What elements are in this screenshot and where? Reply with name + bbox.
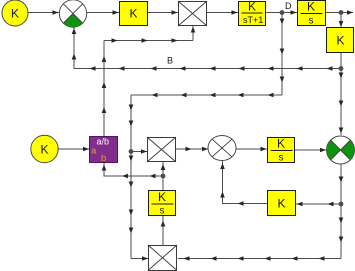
svg-text:K: K [11,7,19,21]
gain K3 block right [327,28,354,53]
wire: gain K2 to multiplier X1 [148,10,178,15]
svg-text:b: b [101,153,106,164]
wire: junction left then up into divider b input [102,163,163,178]
transfer function G1 K/(sT+1) [239,0,266,26]
integrator I2 K/s [268,137,295,164]
wire: vertical x131 down to junction [129,95,134,154]
wire: vertical x131 lower section down [129,152,134,259]
wire: junction left into gain K5 right [296,202,341,207]
wire: multiplier X1 to transfer function G1 [207,10,238,15]
gain K2 block [120,2,148,26]
svg-text:a/b: a/b [97,137,110,147]
multiplier X3 block bottom [148,245,177,271]
svg-text:s: s [279,153,284,164]
wire: gain K3 bottom down to summer S2 top, node B junction [339,53,344,135]
svg-text:s: s [160,206,165,217]
gain K5 block [268,191,296,216]
wire: multiplier M1 to integrator I2 [236,147,267,152]
svg-text:K: K [337,34,345,48]
wire: up into multiplier X1 bottom [191,26,196,41]
wire: divider output up from top [102,41,107,137]
svg-text:D: D [285,1,292,11]
svg-text:K: K [278,197,286,211]
wire: bottom feedback leftwards into multiplier X3 right [178,256,341,261]
divider a/b block [90,137,118,165]
source K1 circle [2,0,28,26]
wire: junction down into gain K3 top [339,13,344,28]
wire: source K1 to summer S1 [28,10,59,15]
wire: summer S1 to gain K2 [87,10,119,15]
source K4 circle [31,135,58,162]
summer S2 (left and right green wedges) [326,136,354,164]
wire: summer S2 output down, junction [339,164,344,259]
svg-text:B: B [167,56,173,66]
wire: feedback line B right to left [74,66,341,71]
svg-text:K: K [248,0,256,14]
svg-text:K: K [41,143,49,157]
wire: node D down [280,13,285,96]
svg-text:sT+1: sT+1 [243,15,263,25]
svg-text:s: s [309,16,314,27]
svg-text:K: K [158,190,166,204]
wire: into multiplier X3 left [131,256,148,261]
wire: source K4 to divider a input [58,147,89,152]
wire: node D horizontal leftwards at y95 [131,93,282,98]
svg-text:K: K [277,137,285,151]
multiplier M1 circle [208,136,236,161]
wire: multiplier X2 to multiplier M1 circle [176,147,208,152]
svg-text:a: a [91,146,97,157]
summer S1 (minus bottom wedge) [59,0,86,27]
wire: integrator I1 output to right edge [326,10,353,15]
multiplier X2 block [147,137,176,162]
wire: multiplier X3 output up into integrator I3 bottom [161,216,166,245]
wire: integrator I2 to summer S2 left [295,148,326,153]
wire: horizontal y40 rightwards [104,38,193,43]
wire: junction into multiplier X2 left [131,149,147,154]
wire: integrator I3 top up into multiplier X2 bottom, junction [161,162,166,190]
svg-text:K: K [307,0,315,14]
wire: gain K5 left, up into multiplier M1 bottom [220,161,267,206]
svg-text:K: K [130,7,138,21]
wire: transfer function G1 to integrator I1, node D junction [266,10,297,15]
integrator I1 K/s [298,0,326,27]
integrator I3 K/s [149,190,176,217]
wire: feedback B up into summer S1 bottom [72,28,77,70]
multiplier X1 block [178,1,207,26]
